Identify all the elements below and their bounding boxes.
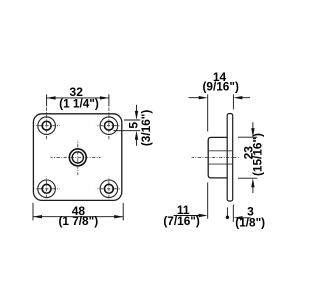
dim 11 dimension line with arrow — [174, 215, 201, 217]
hole bottom-right centerline vertical — [108, 177, 110, 200]
hole top-left centerline horizontal — [34, 125, 60, 127]
svg-text:(15/16"): (15/16") — [251, 133, 265, 176]
dim 32 dimension line — [47, 97, 109, 99]
dim 32 extension line left solid — [46, 94, 48, 106]
dim 5 extension line top — [124, 119, 140, 121]
svg-text:(3/16"): (3/16") — [139, 110, 153, 146]
center hub inner circle — [72, 152, 83, 163]
dim 3 extension line left with dot — [226, 207, 228, 216]
center hub centerline vertical — [77, 140, 79, 175]
hole bottom-left centerline horizontal — [34, 188, 60, 190]
hole bottom-right inner circle — [104, 184, 113, 193]
hole top-right centerline horizontal — [96, 125, 120, 127]
hole bottom-left inner circle — [42, 184, 51, 193]
hole top-right outer circle — [100, 117, 118, 135]
dim 32 extension right dashdot to hole — [108, 108, 110, 140]
dim 14 extension line left upper — [207, 94, 209, 131]
dim 5 arrow top — [136, 105, 138, 112]
svg-text:(1/8"): (1/8") — [235, 215, 265, 229]
dim 14 arrow left — [189, 97, 201, 99]
side view bore line bottom — [209, 163, 233, 165]
svg-text:(7/16"): (7/16") — [163, 214, 199, 228]
hole bottom-right outer circle — [100, 180, 118, 198]
center hub outer circle — [69, 149, 86, 166]
dim 14 extension line left lower — [207, 183, 209, 219]
dim 32 extension line right solid — [108, 94, 110, 106]
hole bottom-right centerline horizontal — [96, 188, 121, 190]
dim 48 extension line right — [122, 203, 124, 221]
front view plate outline — [33, 114, 121, 201]
dim 5 arrow bottom — [136, 139, 138, 146]
hole bottom-left centerline vertical — [46, 177, 48, 200]
dim 14 extension line right — [232, 94, 234, 109]
dim 48 arrow left — [33, 215, 42, 218]
dim 32 arrow right — [100, 96, 109, 99]
center hub centerline horizontal — [51, 156, 101, 158]
side view plate outline — [227, 114, 233, 201]
dim 32 extension left dashdot to hole — [46, 108, 48, 140]
hole bottom-left outer circle — [38, 180, 56, 198]
svg-text:(1 1/4"): (1 1/4") — [59, 96, 99, 110]
dim 3 arrow and tail — [234, 216, 243, 219]
side view boss outline — [208, 137, 227, 178]
dim 23 arrow bottom — [252, 186, 254, 193]
dim 23 extension line top — [238, 136, 257, 138]
dim 5 extension line bottom — [113, 130, 140, 132]
side view bore line top — [209, 150, 233, 152]
dim 48 arrow right — [114, 215, 123, 218]
dim 48 dimension line — [33, 216, 123, 218]
hole top-left inner circle — [42, 121, 51, 130]
svg-text:(9/16"): (9/16") — [202, 80, 238, 94]
svg-text:(1 7/8"): (1 7/8") — [58, 214, 98, 228]
dim 23 arrow top — [252, 122, 254, 129]
hole top-right inner circle — [104, 121, 113, 130]
dim 3 extension line right — [232, 205, 234, 223]
dim 32 arrow left — [47, 96, 56, 99]
side view centerline — [192, 157, 240, 159]
dim 14 arrow right — [241, 97, 250, 99]
hole top-left outer circle — [38, 117, 56, 135]
dim 23 extension line bottom — [238, 177, 257, 179]
dim 48 extension line left — [32, 203, 34, 221]
